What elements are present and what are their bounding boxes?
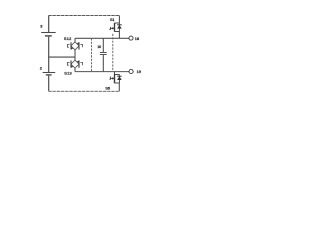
switch S13 bbox=[64, 57, 82, 76]
wire bottom rail rise to S6 source bbox=[118, 83, 120, 91]
terminal 19 bbox=[129, 69, 141, 74]
wire S1 source drop bbox=[118, 32, 120, 39]
capacitor 10 bbox=[97, 38, 107, 71]
transistor S1 bbox=[109, 18, 119, 32]
wire bottom rail (dashed) bbox=[49, 90, 120, 92]
wire left rail bbox=[48, 16, 50, 92]
svg-text:10: 10 bbox=[97, 45, 101, 49]
wire output node to terminal 19 bbox=[75, 71, 129, 73]
diode of S6 bbox=[117, 75, 122, 84]
svg-text:18: 18 bbox=[135, 36, 139, 41]
transistor S6 bbox=[105, 72, 119, 91]
svg-text:3: 3 bbox=[40, 24, 42, 29]
dashed box right edge bbox=[112, 34, 114, 72]
switch S12 bbox=[64, 36, 83, 57]
svg-text:S6: S6 bbox=[105, 86, 110, 90]
wire top rail (dashed) bbox=[49, 15, 120, 17]
svg-text:S1: S1 bbox=[110, 18, 115, 22]
svg-text:19: 19 bbox=[137, 69, 141, 74]
diode of S1 bbox=[117, 23, 122, 32]
svg-text:S12: S12 bbox=[64, 36, 72, 41]
svg-text:S13: S13 bbox=[64, 71, 72, 76]
wire output node to terminal 18 bbox=[75, 37, 129, 39]
dashed box left edge bbox=[91, 38, 93, 71]
wire top rail drop to S1 drain bbox=[118, 16, 120, 24]
battery 2 bbox=[40, 66, 55, 75]
svg-text:2: 2 bbox=[40, 66, 42, 71]
battery 3 bbox=[40, 24, 56, 36]
terminal 18 bbox=[129, 36, 139, 41]
wire battery mid tap bbox=[49, 56, 76, 58]
